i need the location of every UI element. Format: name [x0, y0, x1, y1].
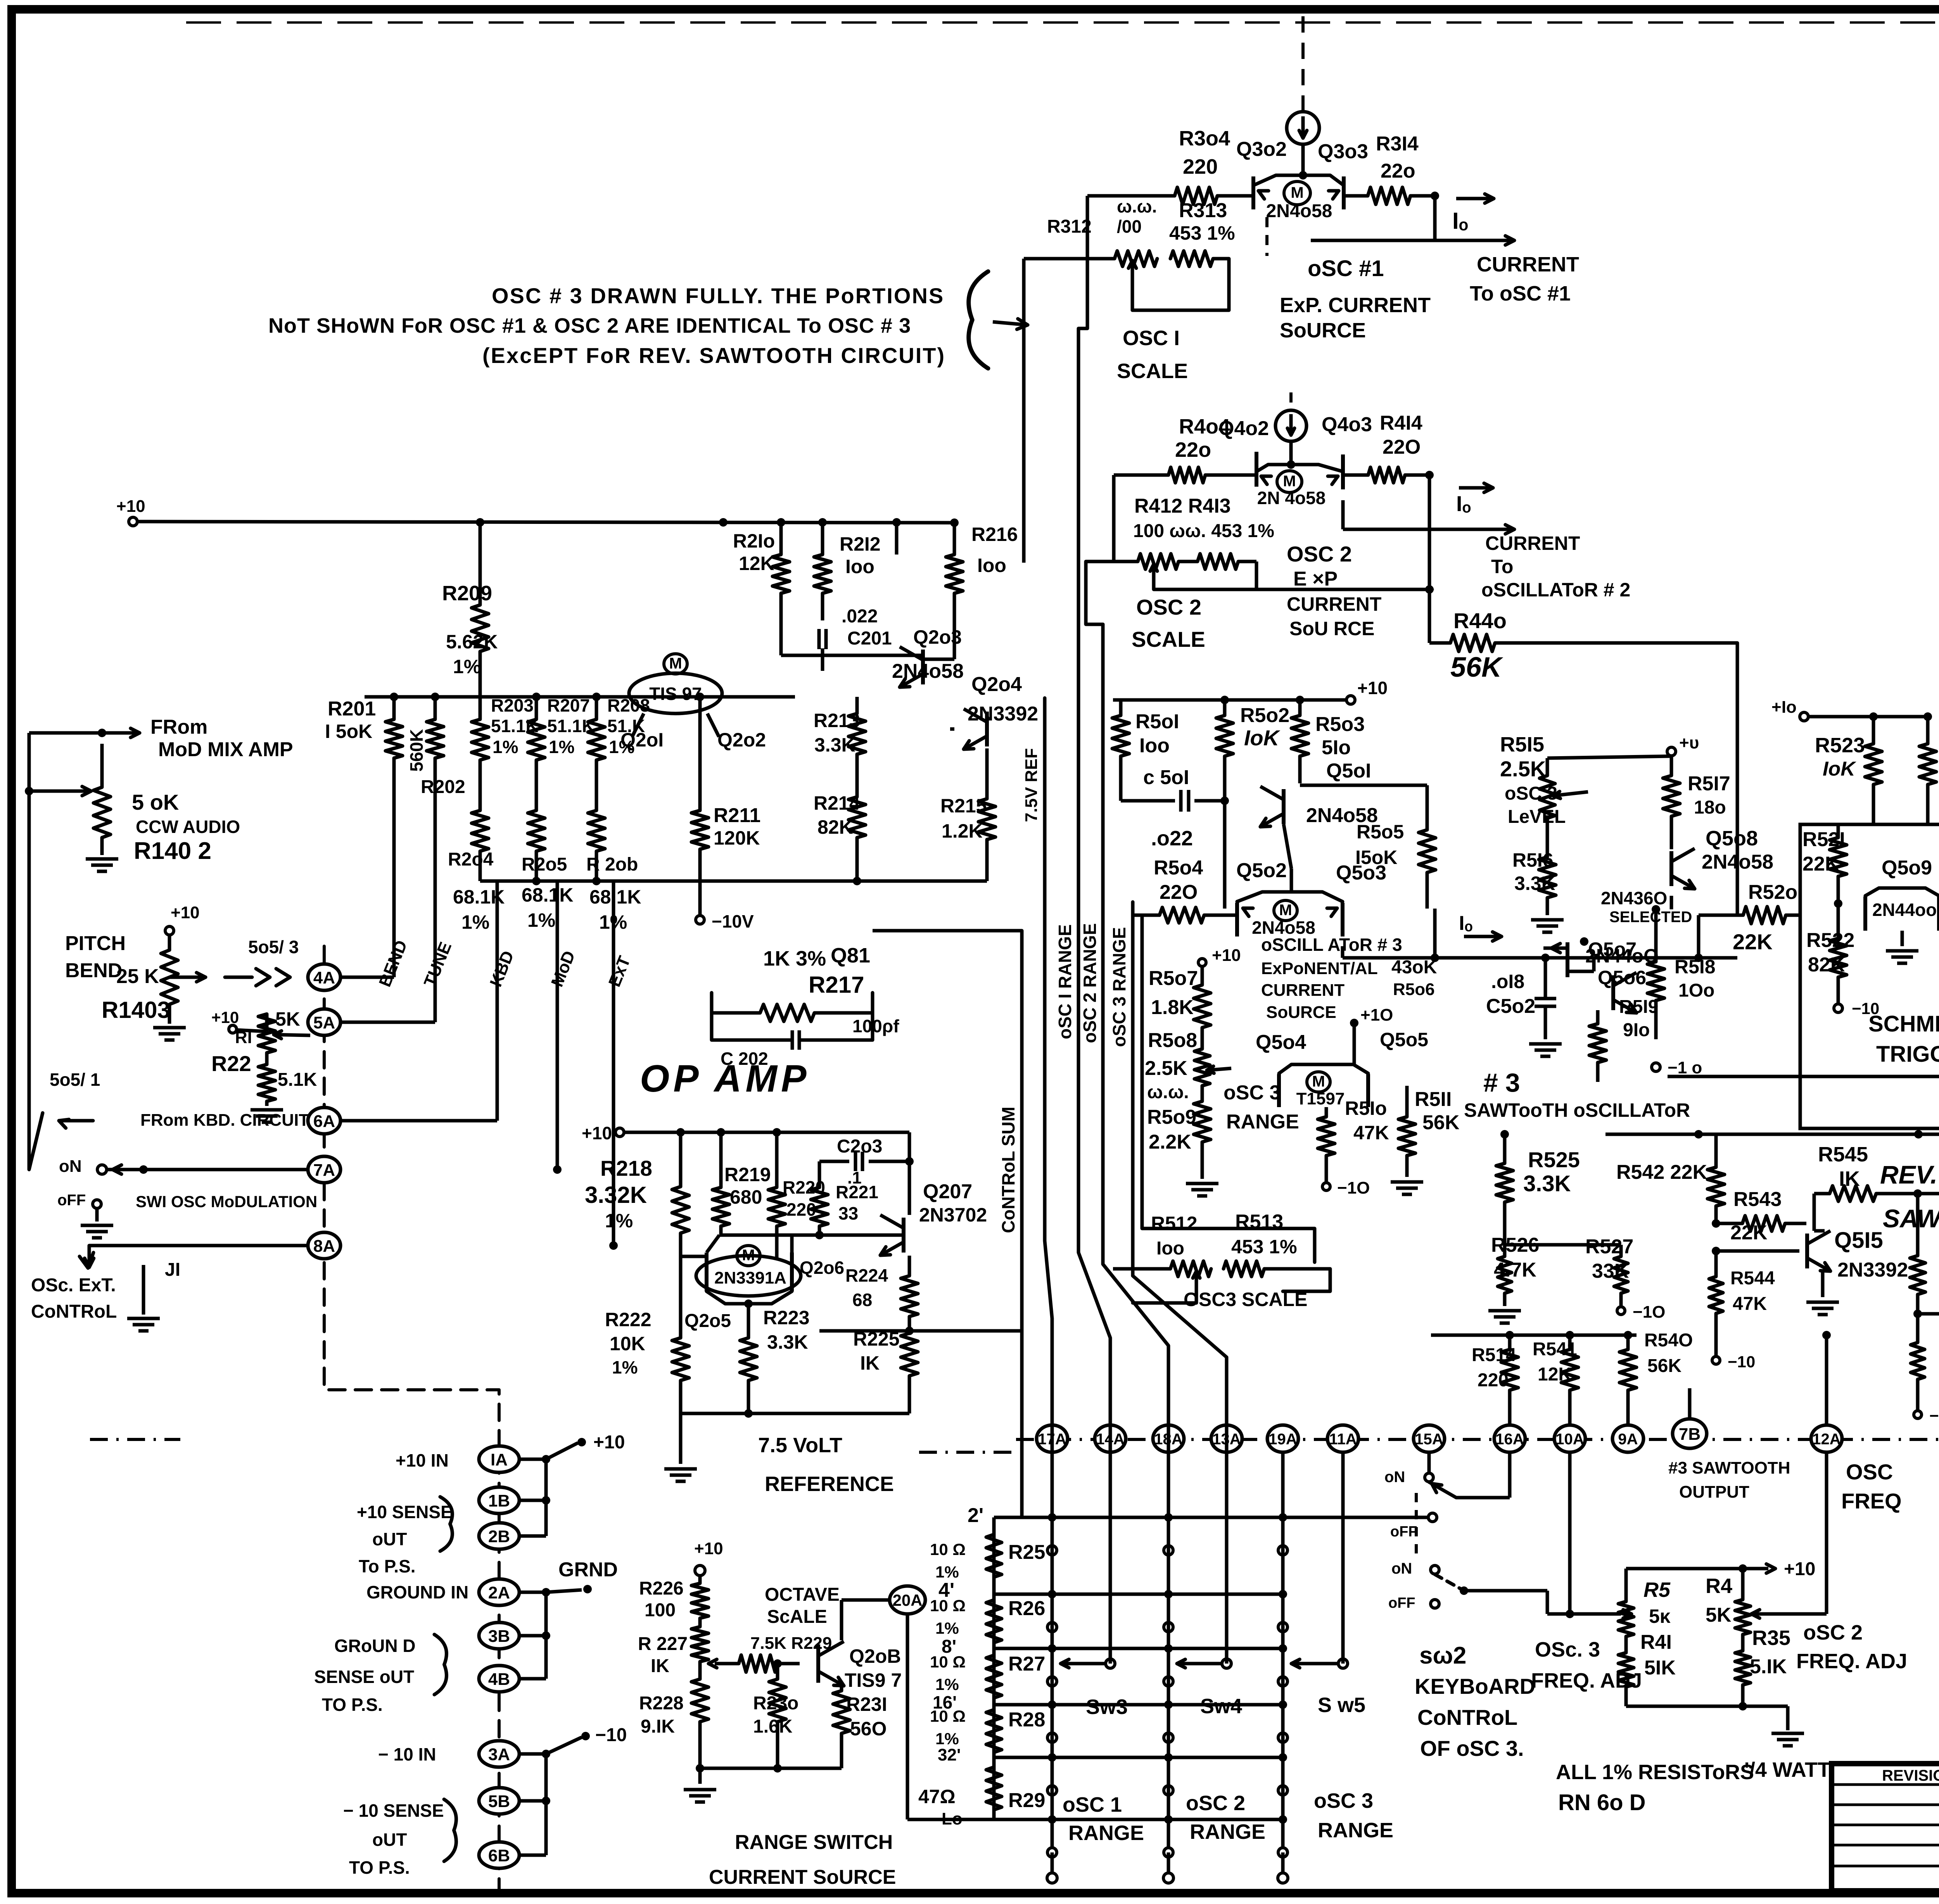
svg-text:1%: 1%: [527, 909, 555, 931]
svg-text:OSC I: OSC I: [1123, 327, 1180, 350]
svg-text:Q3o2: Q3o2: [1236, 138, 1287, 161]
svg-text:5κ: 5κ: [1649, 1605, 1671, 1627]
svg-text:22O: 22O: [1383, 436, 1421, 458]
svg-text:Q2o2: Q2o2: [717, 729, 766, 751]
svg-text:R4I4: R4I4: [1380, 412, 1422, 434]
svg-text:Q4o3: Q4o3: [1322, 413, 1372, 436]
svg-text:R312: R312: [1047, 216, 1092, 237]
svg-text:−1O: −1O: [1633, 1303, 1665, 1322]
svg-text:19A: 19A: [1268, 1431, 1297, 1448]
svg-text:Iₒ: Iₒ: [1452, 208, 1468, 234]
svg-text:22O: 22O: [1160, 881, 1198, 904]
svg-text:oN: oN: [59, 1157, 82, 1176]
svg-text:SWI OSC MoDULATION: SWI OSC MoDULATION: [136, 1192, 317, 1211]
svg-text:Q5I5: Q5I5: [1834, 1228, 1883, 1253]
svg-text:−10: −10: [595, 1725, 627, 1745]
svg-text:oFF: oFF: [1390, 1524, 1417, 1540]
svg-text:5o5/ 1: 5o5/ 1: [50, 1069, 100, 1090]
svg-text:5A: 5A: [313, 1013, 335, 1032]
svg-text:TO P.S.: TO P.S.: [322, 1695, 383, 1715]
svg-text:2N3702: 2N3702: [919, 1204, 987, 1226]
svg-text:+10: +10: [593, 1432, 625, 1453]
svg-text:10K: 10K: [610, 1333, 645, 1355]
svg-text:'/4 WATT: '/4 WATT: [1744, 1758, 1830, 1781]
svg-text:R213: R213: [814, 710, 860, 731]
svg-text:RANGE: RANGE: [1226, 1111, 1299, 1133]
svg-text:15A: 15A: [1415, 1431, 1443, 1448]
svg-text:oSC #1: oSC #1: [1308, 256, 1384, 281]
svg-text:(ExcEPT FoR REV. SAWTOOTH: (ExcEPT FoR REV. SAWTOOTH CIRCUIT): [482, 343, 945, 368]
svg-text:M: M: [1291, 184, 1303, 201]
svg-text:REVISIONS: REVISIONS: [1882, 1767, 1939, 1784]
svg-text:7.5 VoLT: 7.5 VoLT: [758, 1434, 842, 1457]
svg-text:9.IK: 9.IK: [641, 1716, 675, 1737]
svg-text:Q5o9: Q5o9: [1882, 857, 1932, 879]
svg-text:47K: 47K: [1733, 1294, 1767, 1314]
svg-text:100 ωω. 453 1%: 100 ωω. 453 1%: [1133, 521, 1274, 541]
svg-text:oSC I RANGE: oSC I RANGE: [1055, 924, 1075, 1039]
svg-text:7B: 7B: [1679, 1425, 1701, 1444]
svg-text:R513: R513: [1235, 1211, 1283, 1233]
svg-text:25 K: 25 K: [116, 965, 159, 988]
svg-text:/00: /00: [1117, 216, 1142, 237]
svg-text:To P.S.: To P.S.: [359, 1556, 416, 1576]
svg-text:R217: R217: [809, 972, 864, 998]
svg-text:To: To: [1491, 556, 1513, 577]
svg-text:R2o5: R2o5: [522, 854, 567, 875]
svg-text:M: M: [669, 655, 682, 672]
svg-text:Ioo: Ioo: [845, 556, 874, 577]
svg-text:CURRENT: CURRENT: [1261, 981, 1345, 1000]
svg-text:1%: 1%: [493, 737, 518, 757]
svg-text:ω.ω.: ω.ω.: [1147, 1082, 1189, 1102]
svg-text:IoK: IoK: [1244, 726, 1281, 750]
svg-text:OF oSC 3.: OF oSC 3.: [1420, 1736, 1524, 1761]
svg-text:FRom: FRom: [150, 716, 207, 738]
svg-text:Q5oI: Q5oI: [1326, 760, 1371, 782]
svg-text:10 Ω: 10 Ω: [930, 1540, 966, 1558]
svg-text:5.1K: 5.1K: [278, 1069, 317, 1090]
svg-text:FRom KBD. CIRCUIT: FRom KBD. CIRCUIT: [140, 1111, 309, 1130]
svg-text:R211: R211: [714, 804, 760, 827]
svg-text:10A: 10A: [1555, 1431, 1584, 1448]
svg-text:2N3391A: 2N3391A: [714, 1268, 786, 1287]
svg-text:2N44oo: 2N44oo: [1872, 900, 1937, 920]
svg-text:R5o6: R5o6: [1393, 980, 1435, 999]
svg-text:OUTPUT: OUTPUT: [1679, 1482, 1749, 1501]
svg-text:R222: R222: [605, 1309, 652, 1330]
svg-text:BEND: BEND: [65, 959, 122, 982]
svg-text:68: 68: [852, 1290, 872, 1310]
svg-text:C201: C201: [847, 628, 892, 649]
svg-text:R54O: R54O: [1644, 1330, 1693, 1351]
svg-text:Ioo: Ioo: [1139, 734, 1170, 757]
svg-text:R207: R207: [547, 695, 590, 715]
svg-text:T1597: T1597: [1296, 1089, 1345, 1108]
svg-text:R412 R4I3: R412 R4I3: [1134, 495, 1231, 517]
svg-text:R35: R35: [1752, 1626, 1790, 1650]
svg-text:+10: +10: [211, 1008, 239, 1026]
svg-text:Q2o4: Q2o4: [971, 673, 1022, 696]
svg-text:453 1%: 453 1%: [1231, 1236, 1297, 1258]
svg-text:R216: R216: [971, 524, 1018, 545]
svg-text:MoD MIX AMP: MoD MIX AMP: [158, 738, 293, 761]
svg-text:R26: R26: [1008, 1597, 1045, 1620]
svg-text:6A: 6A: [313, 1112, 335, 1131]
svg-text:Q2o6: Q2o6: [800, 1258, 844, 1278]
svg-text:.o22: .o22: [1151, 827, 1193, 850]
svg-text:R140 2: R140 2: [134, 838, 211, 864]
svg-text:RANGE SWITCH: RANGE SWITCH: [735, 1831, 893, 1854]
svg-text:Q5o8: Q5o8: [1706, 827, 1758, 850]
svg-text:GRND: GRND: [558, 1558, 618, 1581]
svg-text:OSC 2: OSC 2: [1287, 542, 1352, 566]
svg-text:SoURCE: SoURCE: [1266, 1003, 1336, 1022]
svg-text:OCTAVE: OCTAVE: [765, 1584, 840, 1605]
svg-text:R523: R523: [1815, 734, 1865, 757]
svg-text:R525: R525: [1528, 1147, 1580, 1172]
svg-text:R4: R4: [1706, 1574, 1732, 1598]
svg-text:680: 680: [730, 1186, 762, 1208]
svg-text:3.3K: 3.3K: [1523, 1171, 1571, 1196]
svg-text:C2o3: C2o3: [837, 1136, 882, 1157]
svg-text:CURRENT: CURRENT: [1485, 532, 1580, 554]
svg-text:CCW AUDIO: CCW AUDIO: [136, 817, 240, 837]
svg-text:CURRENT: CURRENT: [1287, 593, 1381, 615]
svg-text:120K: 120K: [714, 827, 760, 849]
svg-text:560K: 560K: [406, 729, 427, 772]
svg-text:GROUND IN: GROUND IN: [366, 1582, 468, 1602]
svg-text:4B: 4B: [488, 1670, 510, 1689]
svg-text:Ioo: Ioo: [977, 555, 1006, 576]
svg-text:68.1K: 68.1K: [453, 886, 505, 908]
svg-text:Iₒ: Iₒ: [1459, 912, 1473, 935]
svg-text:R512: R512: [1151, 1213, 1198, 1234]
svg-text:47Ω: 47Ω: [918, 1786, 956, 1807]
svg-text:10 Ω: 10 Ω: [930, 1653, 966, 1671]
svg-text:GRoUN D: GRoUN D: [334, 1636, 416, 1656]
svg-text:Q81: Q81: [831, 944, 870, 967]
svg-text:R5I7: R5I7: [1688, 772, 1730, 795]
svg-text:R2I2: R2I2: [840, 533, 881, 555]
svg-text:18o: 18o: [1694, 797, 1726, 818]
svg-text:3.3K: 3.3K: [767, 1331, 808, 1353]
svg-text:R5o7: R5o7: [1149, 967, 1198, 990]
svg-text:5K: 5K: [1706, 1604, 1732, 1626]
svg-text:R 2ob: R 2ob: [586, 854, 638, 875]
svg-text:.022: .022: [842, 606, 878, 627]
svg-text:1%: 1%: [935, 1729, 959, 1748]
svg-text:+10 IN: +10 IN: [396, 1450, 449, 1470]
svg-text:R203: R203: [491, 695, 534, 715]
svg-text:SoU RCE: SoU RCE: [1289, 618, 1374, 639]
svg-text:R5o9: R5o9: [1147, 1106, 1196, 1128]
svg-text:100ρf: 100ρf: [852, 1016, 899, 1036]
svg-text:SoURCE: SoURCE: [1280, 319, 1366, 342]
svg-text:# 3: # 3: [1483, 1068, 1520, 1097]
svg-text:7A: 7A: [313, 1161, 335, 1180]
svg-text:2N4o58: 2N4o58: [892, 660, 964, 682]
svg-text:+10: +10: [582, 1123, 612, 1143]
svg-text:R226: R226: [639, 1578, 684, 1599]
svg-text:1%: 1%: [612, 1357, 638, 1377]
svg-text:R202: R202: [421, 777, 465, 797]
svg-text:M: M: [1279, 902, 1292, 919]
svg-text:R224: R224: [845, 1265, 888, 1285]
svg-text:CoNTRoL: CoNTRoL: [31, 1301, 117, 1322]
svg-text:R5II: R5II: [1415, 1088, 1452, 1111]
svg-text:9Io: 9Io: [1623, 1020, 1650, 1040]
svg-text:oSC 3: oSC 3: [1224, 1082, 1281, 1104]
svg-text:oSC 2 RANGE: oSC 2 RANGE: [1080, 923, 1100, 1043]
svg-text:1%: 1%: [935, 1563, 959, 1581]
svg-text:1B: 1B: [488, 1491, 510, 1510]
svg-text:M: M: [1283, 473, 1296, 490]
svg-text:Lo: Lo: [942, 1809, 963, 1828]
svg-text:3.3K: 3.3K: [1514, 873, 1555, 894]
svg-text:R25: R25: [1008, 1541, 1045, 1564]
svg-text:20A: 20A: [892, 1591, 922, 1609]
svg-text:oSC 2: oSC 2: [1803, 1621, 1863, 1644]
svg-text:Q5o5: Q5o5: [1380, 1029, 1428, 1050]
svg-text:5Io: 5Io: [1322, 736, 1351, 759]
svg-text:8A: 8A: [313, 1237, 335, 1256]
svg-text:220: 220: [1478, 1370, 1509, 1391]
svg-text:TIS 97: TIS 97: [649, 684, 702, 704]
svg-text:2N436O: 2N436O: [1601, 888, 1667, 908]
svg-text:sω2: sω2: [1419, 1642, 1466, 1669]
svg-text:OSC3 SCALE: OSC3 SCALE: [1184, 1289, 1308, 1310]
svg-text:R52o: R52o: [1748, 881, 1797, 904]
svg-text:CURRENT SoURCE: CURRENT SoURCE: [709, 1866, 896, 1888]
svg-text:RANGE: RANGE: [1318, 1819, 1393, 1842]
svg-text:R5o2: R5o2: [1240, 704, 1289, 727]
svg-text:1%: 1%: [935, 1675, 959, 1693]
svg-text:IoK: IoK: [1823, 758, 1856, 780]
svg-text:2N3392: 2N3392: [1837, 1259, 1908, 1281]
svg-text:1.2K: 1.2K: [942, 820, 983, 842]
svg-text:R27: R27: [1008, 1653, 1045, 1675]
svg-text:SAW.: SAW.: [1883, 1204, 1939, 1233]
svg-text:Q2oB: Q2oB: [849, 1645, 901, 1667]
svg-text:FREQ. ADJ: FREQ. ADJ: [1796, 1650, 1907, 1673]
svg-text:11A: 11A: [1329, 1431, 1357, 1448]
svg-text:68.1K: 68.1K: [589, 886, 641, 908]
svg-text:oSC 2: oSC 2: [1186, 1792, 1245, 1815]
svg-text:oFF: oFF: [57, 1192, 86, 1209]
svg-text:CURRENT: CURRENT: [1477, 253, 1579, 276]
svg-text:16A: 16A: [1495, 1431, 1524, 1448]
svg-text:OSC 2: OSC 2: [1136, 595, 1201, 619]
svg-text:CoNTRoL: CoNTRoL: [1417, 1705, 1517, 1729]
svg-text:OSc. 3: OSc. 3: [1535, 1638, 1600, 1661]
svg-text:R5o5: R5o5: [1357, 821, 1404, 843]
svg-text:R527: R527: [1585, 1235, 1633, 1258]
svg-text:M: M: [1312, 1073, 1325, 1090]
svg-text:LeVEL: LeVEL: [1508, 807, 1566, 827]
svg-text:RANGE: RANGE: [1190, 1820, 1265, 1844]
svg-text:5K: 5K: [275, 1008, 300, 1030]
svg-text:CoNTRoL SUM: CoNTRoL SUM: [998, 1107, 1018, 1233]
svg-text:1%: 1%: [549, 737, 574, 757]
svg-text:OSC: OSC: [1846, 1460, 1893, 1484]
svg-text:PITCH: PITCH: [65, 932, 126, 955]
svg-text:.oI8: .oI8: [1491, 971, 1524, 992]
svg-text:2N 4o58: 2N 4o58: [1257, 488, 1326, 508]
svg-text:R223: R223: [763, 1307, 810, 1329]
svg-text:R3I4: R3I4: [1376, 133, 1419, 155]
svg-text:R5o4: R5o4: [1154, 857, 1203, 879]
svg-text:R5oI: R5oI: [1135, 710, 1179, 733]
svg-text:SAWTooTH oSCILLAToR: SAWTooTH oSCILLAToR: [1464, 1099, 1690, 1121]
svg-text:TRIGGE R: TRIGGE R: [1876, 1042, 1939, 1067]
svg-text:R5I6: R5I6: [1512, 849, 1554, 871]
svg-text:56K: 56K: [1450, 652, 1504, 683]
svg-text:R544: R544: [1730, 1268, 1775, 1289]
svg-text:2.2K: 2.2K: [1149, 1131, 1191, 1153]
svg-text:−1 o: −1 o: [1668, 1058, 1702, 1077]
svg-text:22o: 22o: [1381, 160, 1415, 182]
svg-text:+υ: +υ: [1679, 733, 1699, 752]
svg-text:Q2oI: Q2oI: [620, 729, 664, 751]
svg-text:−10V: −10V: [712, 911, 754, 931]
svg-text:R209: R209: [442, 582, 492, 605]
svg-text:+1O: +1O: [1360, 1006, 1393, 1025]
svg-text:3.3K: 3.3K: [814, 734, 855, 756]
svg-text:ScALE: ScALE: [767, 1607, 827, 1627]
svg-text:KEYBoARD: KEYBoARD: [1415, 1674, 1535, 1698]
svg-text:R4I: R4I: [1640, 1631, 1672, 1653]
svg-text:R5Io: R5Io: [1345, 1097, 1387, 1119]
svg-text:Q5o4: Q5o4: [1256, 1031, 1306, 1054]
svg-text:−1O: −1O: [1337, 1178, 1370, 1197]
svg-text:R5I5: R5I5: [1500, 733, 1544, 756]
svg-text:3.32K: 3.32K: [585, 1182, 647, 1208]
svg-text:5 oK: 5 oK: [132, 790, 179, 814]
svg-text:− 10 IN: − 10 IN: [378, 1744, 436, 1764]
svg-text:I 5oK: I 5oK: [325, 720, 372, 742]
svg-text:Iₒ: Iₒ: [1456, 491, 1471, 516]
svg-text:ExP. CURRENT: ExP. CURRENT: [1280, 294, 1431, 317]
svg-text:To oSC #1: To oSC #1: [1470, 282, 1571, 305]
svg-text:S w5: S w5: [1318, 1693, 1365, 1717]
svg-text:FREQ: FREQ: [1841, 1489, 1902, 1513]
svg-text:+10: +10: [1212, 946, 1241, 965]
svg-text:+10: +10: [694, 1539, 723, 1558]
svg-text:R5o8: R5o8: [1148, 1029, 1197, 1052]
svg-text:oUT: oUT: [372, 1830, 407, 1850]
svg-text:R2o4: R2o4: [448, 849, 494, 870]
svg-text:22o: 22o: [1175, 438, 1211, 461]
svg-text:R541: R541: [1533, 1339, 1577, 1360]
svg-text:220: 220: [1183, 155, 1218, 178]
svg-text:NoT SHoWN FoR OSC #1 & OSC: NoT SHoWN FoR OSC #1 & OSC 2 ARE IDENTIC…: [268, 314, 911, 337]
svg-text:−10: −10: [1929, 1406, 1939, 1425]
svg-text:Sw4: Sw4: [1200, 1695, 1242, 1718]
svg-text:oUT: oUT: [372, 1529, 407, 1549]
svg-text:SCALE: SCALE: [1117, 359, 1188, 383]
svg-text:R1403: R1403: [102, 997, 170, 1023]
svg-text:2N3392: 2N3392: [968, 703, 1038, 725]
svg-text:TIS9 7: TIS9 7: [845, 1669, 902, 1691]
svg-text:Q4o2: Q4o2: [1218, 417, 1269, 440]
svg-text:R 227: R 227: [638, 1634, 688, 1654]
svg-text:5IK: 5IK: [1644, 1657, 1676, 1679]
svg-text:R542 22K: R542 22K: [1616, 1161, 1707, 1184]
svg-text:R215: R215: [940, 795, 987, 817]
svg-text:1K 3%: 1K 3%: [763, 947, 826, 970]
svg-text:R5o3: R5o3: [1315, 713, 1365, 736]
svg-text:c 5oI: c 5oI: [1143, 766, 1189, 789]
svg-text:2.5K: 2.5K: [1145, 1057, 1187, 1080]
svg-text:R5I9: R5I9: [1619, 997, 1658, 1017]
svg-text:1%: 1%: [461, 911, 489, 933]
svg-text:JI: JI: [165, 1260, 180, 1280]
svg-text:TO P.S.: TO P.S.: [349, 1857, 410, 1878]
svg-text:IK: IK: [860, 1352, 880, 1374]
svg-text:2A: 2A: [488, 1583, 510, 1602]
svg-text:100: 100: [645, 1600, 676, 1621]
svg-text:R221: R221: [836, 1182, 878, 1202]
svg-text:R543: R543: [1733, 1188, 1782, 1211]
svg-text:E ×P: E ×P: [1293, 568, 1338, 590]
svg-text:33: 33: [838, 1203, 858, 1223]
svg-text:REV.: REV.: [1880, 1160, 1937, 1189]
svg-text:+10: +10: [171, 903, 200, 922]
svg-text:56K: 56K: [1647, 1356, 1682, 1376]
svg-text:R218: R218: [600, 1156, 652, 1180]
svg-text:5B: 5B: [488, 1792, 510, 1811]
svg-text:1%: 1%: [599, 911, 627, 933]
svg-text:R201: R201: [328, 698, 376, 720]
svg-text:C5o2: C5o2: [1486, 995, 1535, 1018]
svg-text:2N4o58: 2N4o58: [1266, 201, 1332, 221]
svg-text:4A: 4A: [313, 968, 335, 987]
svg-text:+10 SENSE: +10 SENSE: [357, 1502, 453, 1522]
svg-text:R3o4: R3o4: [1179, 127, 1230, 150]
svg-text:1.8K: 1.8K: [1151, 996, 1194, 1019]
svg-text:Q3o3: Q3o3: [1318, 140, 1368, 163]
svg-text:− 10 SENSE: − 10 SENSE: [343, 1800, 444, 1821]
svg-text:RN 6o D: RN 6o D: [1558, 1790, 1646, 1815]
svg-text:Q5o2: Q5o2: [1236, 859, 1287, 882]
svg-text:OSc. ExT.: OSc. ExT.: [31, 1275, 116, 1296]
svg-text:12K: 12K: [739, 553, 774, 574]
svg-text:oSC 3 RANGE: oSC 3 RANGE: [1109, 927, 1129, 1047]
svg-text:Q5o6: Q5o6: [1598, 967, 1646, 988]
svg-text:Sw3: Sw3: [1086, 1695, 1128, 1719]
svg-text:oFF: oFF: [1388, 1595, 1415, 1611]
svg-text:56O: 56O: [850, 1718, 887, 1740]
svg-text:oSCILL AToR # 3: oSCILL AToR # 3: [1261, 935, 1402, 955]
svg-text:10 Ω: 10 Ω: [930, 1596, 966, 1615]
svg-text:6B: 6B: [488, 1846, 510, 1865]
svg-text:68.1K: 68.1K: [522, 884, 573, 906]
svg-text:REFERENCE: REFERENCE: [765, 1472, 894, 1496]
svg-text:Q2o5: Q2o5: [684, 1311, 731, 1331]
svg-text:1%: 1%: [935, 1619, 959, 1637]
svg-text:R23I: R23I: [846, 1693, 887, 1715]
svg-text:RANGE: RANGE: [1068, 1821, 1144, 1845]
svg-text:R5: R5: [1643, 1578, 1671, 1602]
svg-text:22K: 22K: [1733, 930, 1773, 954]
svg-text:ALL 1% RESISToRS: ALL 1% RESISToRS: [1556, 1761, 1754, 1784]
svg-text:oSC 1: oSC 1: [1063, 1793, 1122, 1816]
svg-text:OSC # 3 DRAWN FULLY. THE: OSC # 3 DRAWN FULLY. THE PoRTIONS: [492, 283, 944, 308]
svg-text:+Io: +Io: [1771, 698, 1797, 717]
svg-text:IK: IK: [651, 1656, 669, 1676]
svg-text:+10: +10: [1784, 1559, 1815, 1579]
